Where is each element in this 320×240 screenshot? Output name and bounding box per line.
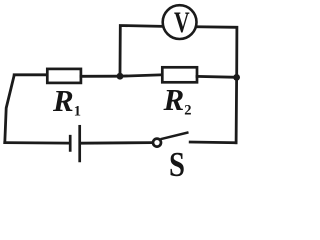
wire: R1 right to node A [81, 75, 120, 78]
battery cell: short plate (-) [69, 136, 72, 150]
label R2 [164, 82, 192, 120]
battery cell: long plate (+) [78, 126, 81, 161]
wire: voltmeter left branch (down to node A) [120, 26, 163, 74]
voltmeter V (meter circle) [163, 5, 197, 39]
switch S pivot contact (small open circle) [153, 139, 161, 147]
wire: voltmeter right branch (down to node B) [197, 27, 237, 75]
wire: R2 right to node B [197, 75, 237, 79]
wire: switch to battery positive plate [81, 141, 151, 144]
resistor R2 [162, 67, 197, 82]
node B (junction dot) [233, 74, 240, 81]
wire: bottom, right corner to switch fixed contact [190, 141, 236, 144]
wire: node A to R2 left [120, 75, 162, 76]
wire: node B down to bottom-right corner [235, 81, 238, 143]
wire: left vertical (battery loop left side, slightly skewed) [5, 75, 14, 142]
label R1 [53, 83, 81, 121]
resistor R1 [47, 69, 81, 83]
node A (junction dot) [117, 73, 124, 80]
wire: main horizontal, corner to R1 left [14, 73, 47, 76]
switch S lever [162, 133, 188, 139]
label V (voltmeter) [174, 6, 190, 40]
wire: battery negative to bottom-left corner [5, 141, 68, 144]
label S (switch) [169, 145, 185, 185]
